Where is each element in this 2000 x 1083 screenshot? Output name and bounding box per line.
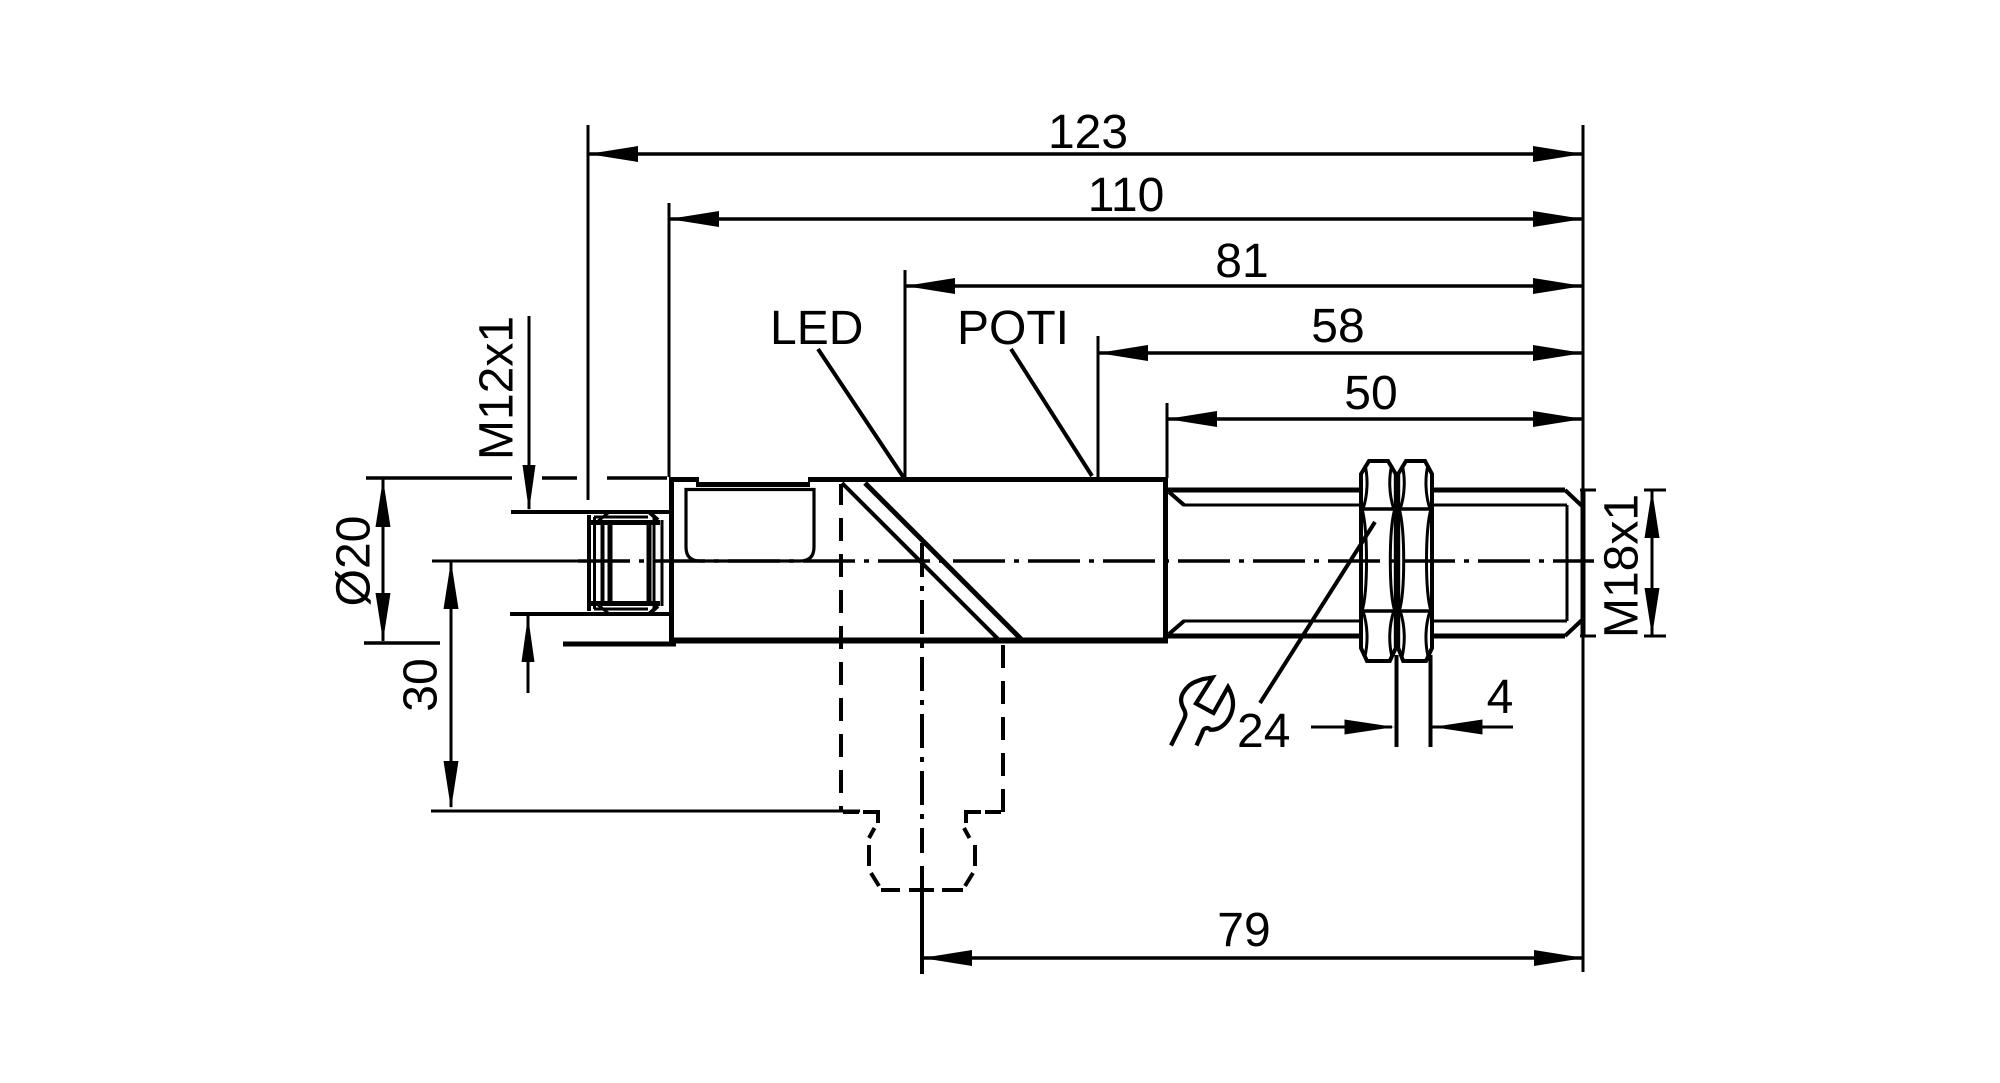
nut extension lines for 4 bbox=[1395, 655, 1399, 747]
svg-text:110: 110 bbox=[1088, 169, 1165, 222]
svg-text:POTI: POTI bbox=[957, 302, 1069, 355]
thread barrel M18 bbox=[1167, 490, 1583, 636]
M12x1 dimension bbox=[471, 316, 536, 693]
hidden dashed line right bbox=[1001, 645, 1005, 812]
dimension 123 bbox=[588, 106, 1583, 162]
dimension 50 bbox=[1167, 367, 1583, 427]
svg-text:58: 58 bbox=[1311, 300, 1364, 353]
dimension 50 extension line bbox=[1166, 403, 1169, 478]
svg-text:LED: LED bbox=[770, 302, 863, 355]
dimension 58 bbox=[1098, 300, 1583, 361]
wrench icon bbox=[1171, 678, 1233, 746]
dimension 79 bbox=[922, 904, 1584, 966]
label LED bbox=[770, 302, 904, 478]
dimension 81 bbox=[905, 235, 1583, 294]
dimension 110 bbox=[669, 169, 1583, 227]
dimension 81 extension line bbox=[904, 270, 907, 478]
svg-text:123: 123 bbox=[1048, 106, 1128, 159]
svg-text:50: 50 bbox=[1344, 367, 1397, 420]
M18x1 dimension bbox=[1580, 490, 1666, 638]
leader from 24 to nut bbox=[1260, 522, 1375, 703]
svg-text:24: 24 bbox=[1237, 705, 1290, 758]
svg-text:81: 81 bbox=[1215, 235, 1268, 288]
bracket centerline vertical bbox=[920, 543, 924, 974]
M12 connector bbox=[510, 512, 671, 614]
right extension line bbox=[1582, 125, 1585, 972]
svg-text:M18x1: M18x1 bbox=[1596, 494, 1649, 638]
dimension 58 extension line bbox=[1097, 336, 1100, 478]
hex nut right bbox=[1398, 461, 1432, 661]
hidden dashed line left bbox=[839, 484, 843, 812]
diagonal stripe bbox=[842, 483, 1001, 642]
30 dimension bbox=[395, 561, 861, 811]
svg-text:79: 79 bbox=[1217, 904, 1270, 957]
diameter 20 dimension bbox=[328, 478, 668, 643]
svg-text:4: 4 bbox=[1487, 671, 1514, 724]
sensor body outline bbox=[563, 477, 1168, 646]
label POTI bbox=[957, 302, 1092, 476]
dimension 4 bbox=[1311, 671, 1513, 735]
cable window bbox=[686, 490, 814, 562]
svg-text:Ø20: Ø20 bbox=[328, 516, 381, 607]
dimension 123 extension line left bbox=[587, 125, 590, 500]
hex nut left bbox=[1361, 461, 1396, 661]
horizontal centerline bbox=[432, 560, 1594, 563]
svg-text:M12x1: M12x1 bbox=[471, 316, 524, 460]
mounting bracket dashed outline bbox=[843, 810, 1001, 890]
dimension 110 extension line bbox=[668, 203, 671, 477]
svg-text:30: 30 bbox=[395, 658, 448, 711]
